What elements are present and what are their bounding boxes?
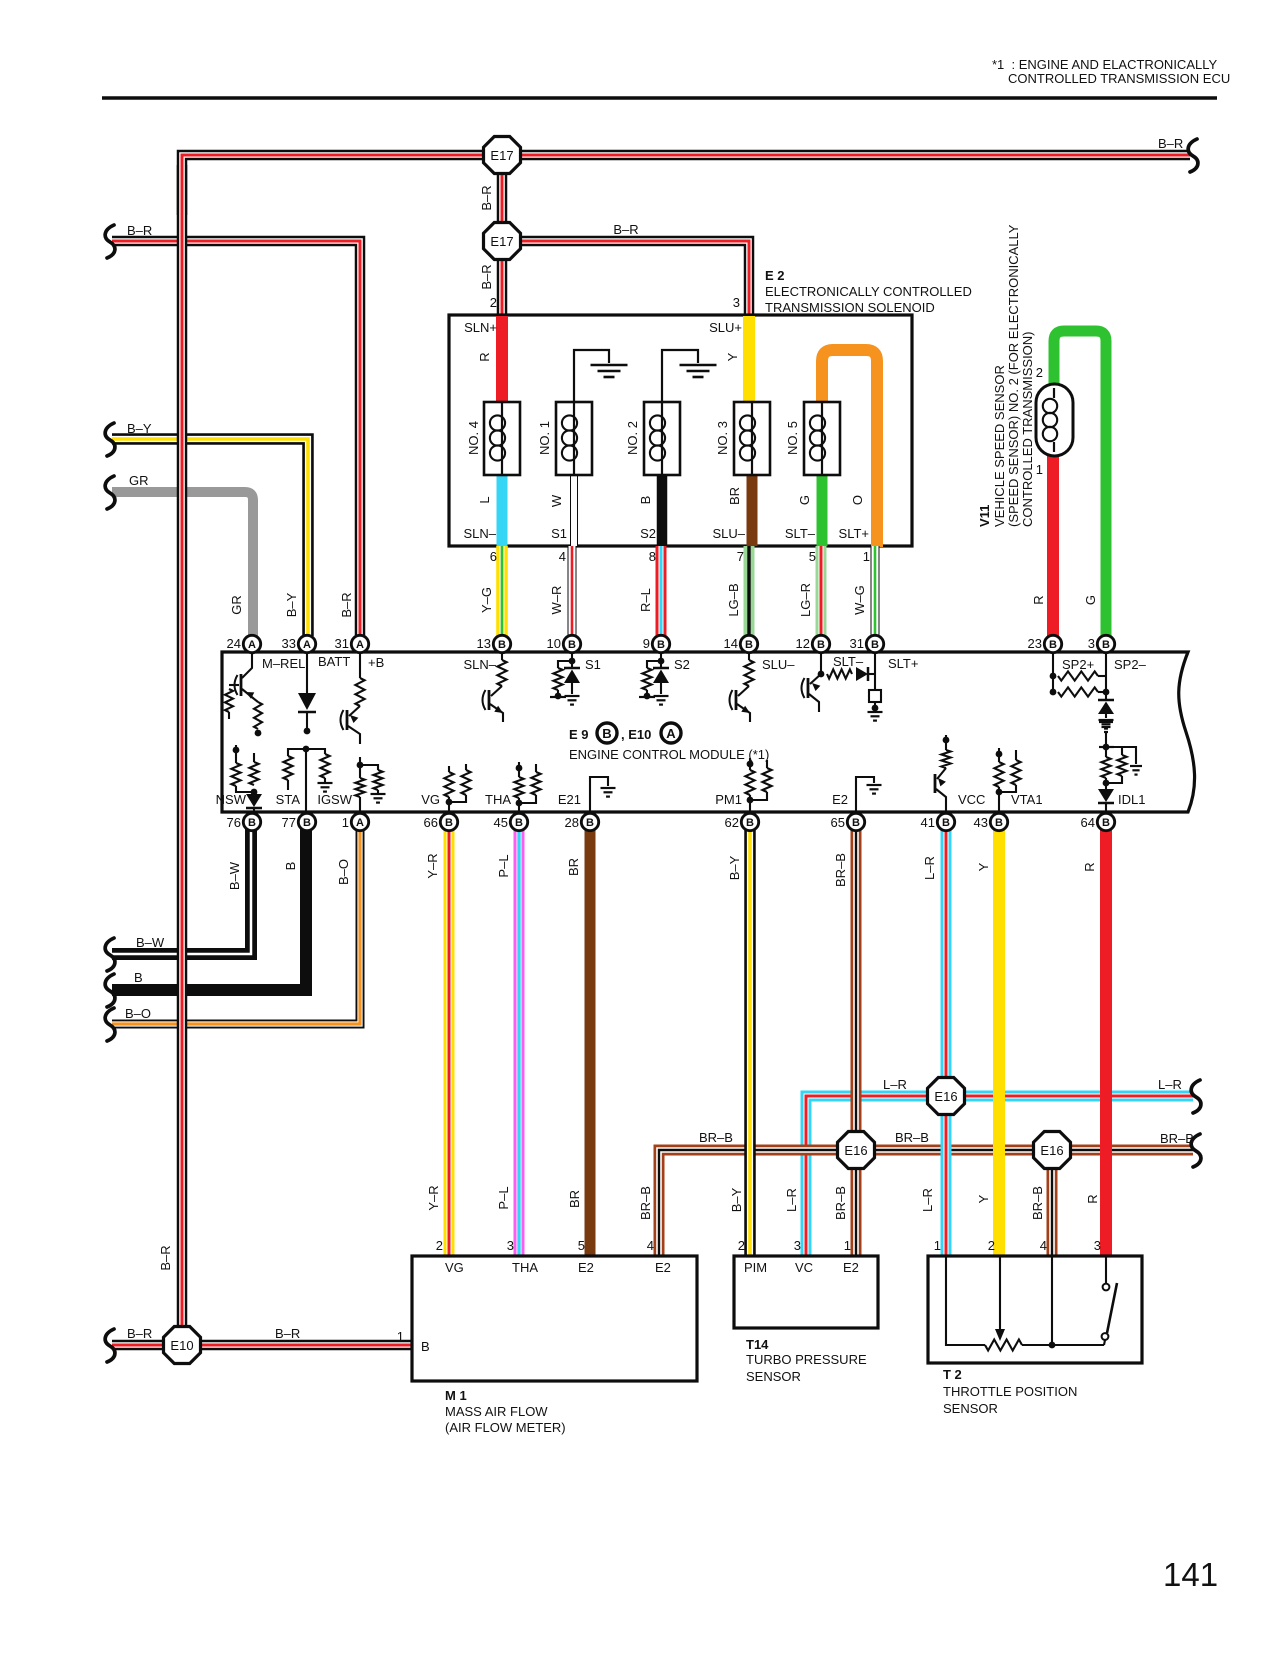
svg-text:L–R: L–R xyxy=(883,1077,907,1092)
svg-text:BR: BR xyxy=(567,1190,582,1208)
svg-text:B: B xyxy=(995,817,1003,829)
svg-text:B–Y: B–Y xyxy=(727,855,742,880)
svg-text:CONTROLLED TRANSMISSION): CONTROLLED TRANSMISSION) xyxy=(1020,331,1035,527)
svg-text:LG–B: LG–B xyxy=(726,583,741,616)
svg-text:GR: GR xyxy=(229,595,244,615)
svg-text:S1: S1 xyxy=(551,526,567,541)
svg-text:B: B xyxy=(568,639,576,651)
svg-text:SLU–: SLU– xyxy=(712,526,745,541)
svg-text:B–R: B–R xyxy=(1158,136,1183,151)
svg-text:IGSW: IGSW xyxy=(317,792,352,807)
svg-text:BR–B: BR–B xyxy=(833,1186,848,1220)
svg-text:A: A xyxy=(356,817,364,829)
svg-text:43: 43 xyxy=(974,815,988,830)
svg-text:E17: E17 xyxy=(490,234,513,249)
svg-text:BR–B: BR–B xyxy=(699,1130,733,1145)
svg-text:IDL1: IDL1 xyxy=(1118,792,1145,807)
svg-text:BR: BR xyxy=(727,487,742,505)
svg-text:B–Y: B–Y xyxy=(284,592,299,617)
svg-text:B: B xyxy=(746,817,754,829)
svg-text:W–R: W–R xyxy=(549,586,564,615)
svg-text:A: A xyxy=(248,639,256,651)
svg-text:ELECTRONICALLY CONTROLLED: ELECTRONICALLY CONTROLLED xyxy=(765,284,972,299)
svg-text:B: B xyxy=(498,639,506,651)
svg-text:1: 1 xyxy=(342,815,349,830)
svg-text:E10: E10 xyxy=(170,1338,193,1353)
svg-text:E16: E16 xyxy=(844,1143,867,1158)
svg-text:E21: E21 xyxy=(558,792,581,807)
svg-text:ENGINE CONTROL MODULE (*1): ENGINE CONTROL MODULE (*1) xyxy=(569,747,769,762)
svg-text:2: 2 xyxy=(436,1238,443,1253)
svg-text:23: 23 xyxy=(1028,636,1042,651)
svg-text:5: 5 xyxy=(578,1238,585,1253)
svg-text:NO. 5: NO. 5 xyxy=(785,421,800,455)
svg-text:R: R xyxy=(1085,1194,1100,1203)
svg-text:R: R xyxy=(477,352,492,361)
svg-text:B–R: B–R xyxy=(127,1326,152,1341)
svg-text:E17: E17 xyxy=(490,148,513,163)
svg-text:4: 4 xyxy=(1040,1238,1047,1253)
svg-text:B: B xyxy=(1102,639,1110,651)
svg-text:VTA1: VTA1 xyxy=(1011,792,1043,807)
svg-text:8: 8 xyxy=(649,549,656,564)
svg-text:2: 2 xyxy=(988,1238,995,1253)
svg-text:B–W: B–W xyxy=(136,935,165,950)
svg-text:Y–G: Y–G xyxy=(479,587,494,613)
svg-text:NO. 1: NO. 1 xyxy=(537,421,552,455)
svg-text:, E10: , E10 xyxy=(621,727,651,742)
svg-text:THROTTLE POSITION: THROTTLE POSITION xyxy=(943,1384,1077,1399)
svg-text:SLN–: SLN– xyxy=(463,657,496,672)
svg-text:SLU+: SLU+ xyxy=(709,320,742,335)
svg-text:A: A xyxy=(303,639,311,651)
svg-text:(AIR FLOW METER): (AIR FLOW METER) xyxy=(445,1420,566,1435)
svg-text:SENSOR: SENSOR xyxy=(746,1369,801,1384)
svg-text:3: 3 xyxy=(1094,1238,1101,1253)
svg-text:SLT–: SLT– xyxy=(833,654,864,669)
svg-text:Y: Y xyxy=(725,352,740,361)
svg-text:A: A xyxy=(356,639,364,651)
svg-text:SLT+: SLT+ xyxy=(888,656,918,671)
svg-text:B–R: B–R xyxy=(275,1326,300,1341)
svg-text:SP2+: SP2+ xyxy=(1062,657,1094,672)
svg-text:B: B xyxy=(871,639,879,651)
svg-text:BR–B: BR–B xyxy=(638,1186,653,1220)
svg-text:B: B xyxy=(1049,639,1057,651)
svg-text:3: 3 xyxy=(794,1238,801,1253)
svg-text:A: A xyxy=(666,726,676,741)
svg-text:2: 2 xyxy=(490,295,497,310)
svg-text:STA: STA xyxy=(276,792,301,807)
svg-text:64: 64 xyxy=(1081,815,1095,830)
svg-text:12: 12 xyxy=(796,636,810,651)
svg-text:L–R: L–R xyxy=(922,856,937,880)
svg-text:W–G: W–G xyxy=(852,585,867,615)
svg-text:B: B xyxy=(303,817,311,829)
svg-text:B–Y: B–Y xyxy=(729,1187,744,1212)
svg-text:41: 41 xyxy=(921,815,935,830)
svg-text:B: B xyxy=(421,1339,430,1354)
svg-text:2: 2 xyxy=(1036,365,1043,380)
svg-text:B–R: B–R xyxy=(479,185,494,210)
svg-text:B: B xyxy=(445,817,453,829)
svg-text:T14: T14 xyxy=(746,1337,769,1352)
svg-text:6: 6 xyxy=(490,549,497,564)
svg-text:VEHICLE SPEED SENSOR: VEHICLE SPEED SENSOR xyxy=(992,365,1007,527)
svg-text:3: 3 xyxy=(733,295,740,310)
svg-text:LG–R: LG–R xyxy=(798,583,813,617)
svg-text:E 9: E 9 xyxy=(569,727,589,742)
svg-text:B–Y: B–Y xyxy=(127,421,152,436)
svg-text:E2: E2 xyxy=(578,1260,594,1275)
svg-text:BR–B: BR–B xyxy=(1160,1131,1194,1146)
svg-text:B–R: B–R xyxy=(339,592,354,617)
svg-text:PM1: PM1 xyxy=(715,792,742,807)
svg-text:GR: GR xyxy=(129,473,149,488)
svg-text:THA: THA xyxy=(485,792,511,807)
svg-text:B: B xyxy=(817,639,825,651)
svg-text:1: 1 xyxy=(1036,462,1043,477)
svg-text:B: B xyxy=(657,639,665,651)
svg-text:B: B xyxy=(283,862,298,871)
svg-text:B: B xyxy=(515,817,523,829)
svg-text:BR–B: BR–B xyxy=(833,853,848,887)
svg-text:SLT+: SLT+ xyxy=(839,526,869,541)
svg-text:NO. 3: NO. 3 xyxy=(715,421,730,455)
svg-text:S2: S2 xyxy=(674,657,690,672)
svg-text:1: 1 xyxy=(934,1238,941,1253)
svg-text:O: O xyxy=(850,495,865,505)
svg-text:1: 1 xyxy=(844,1238,851,1253)
svg-text:E 2: E 2 xyxy=(765,268,785,283)
svg-text:+B: +B xyxy=(368,655,384,670)
svg-text:B–W: B–W xyxy=(227,861,242,890)
svg-text:B: B xyxy=(602,726,611,741)
svg-text:SLU–: SLU– xyxy=(762,657,795,672)
svg-text:Y–R: Y–R xyxy=(425,853,440,878)
svg-text:B–O: B–O xyxy=(336,859,351,885)
svg-text:B–O: B–O xyxy=(125,1006,151,1021)
svg-text:S1: S1 xyxy=(585,657,601,672)
svg-text:B–R: B–R xyxy=(127,223,152,238)
svg-text:31: 31 xyxy=(850,636,864,651)
svg-text:141: 141 xyxy=(1163,1556,1218,1593)
svg-text:4: 4 xyxy=(647,1238,654,1253)
svg-text:THA: THA xyxy=(512,1260,538,1275)
svg-text:B: B xyxy=(852,817,860,829)
svg-text:13: 13 xyxy=(477,636,491,651)
svg-text:9: 9 xyxy=(643,636,650,651)
svg-text:PIM: PIM xyxy=(744,1260,767,1275)
svg-text:V11: V11 xyxy=(977,505,992,527)
svg-text:SENSOR: SENSOR xyxy=(943,1401,998,1416)
svg-text:B: B xyxy=(248,817,256,829)
svg-text:T 2: T 2 xyxy=(943,1367,962,1382)
svg-text:VC: VC xyxy=(795,1260,813,1275)
svg-text:76: 76 xyxy=(227,815,241,830)
svg-text:R: R xyxy=(1031,595,1046,604)
svg-text:P–L: P–L xyxy=(496,1186,511,1209)
svg-text:66: 66 xyxy=(424,815,438,830)
svg-text:SLT–: SLT– xyxy=(785,526,816,541)
svg-text:NSW: NSW xyxy=(216,792,247,807)
svg-text:14: 14 xyxy=(724,636,738,651)
svg-text:L–R: L–R xyxy=(920,1188,935,1212)
svg-text:65: 65 xyxy=(831,815,845,830)
svg-text:R: R xyxy=(1082,862,1097,871)
svg-text:BR–B: BR–B xyxy=(1030,1186,1045,1220)
svg-text:BR: BR xyxy=(566,858,581,876)
svg-text:W: W xyxy=(549,494,564,507)
svg-text:1: 1 xyxy=(397,1329,404,1344)
svg-text:B–R: B–R xyxy=(613,222,638,237)
svg-text:MASS AIR FLOW: MASS AIR FLOW xyxy=(445,1404,548,1419)
svg-text:B: B xyxy=(586,817,594,829)
svg-text:SLN+: SLN+ xyxy=(464,320,497,335)
svg-text:M 1: M 1 xyxy=(445,1388,467,1403)
svg-text:TURBO PRESSURE: TURBO PRESSURE xyxy=(746,1352,867,1367)
svg-text:7: 7 xyxy=(737,549,744,564)
svg-text:E16: E16 xyxy=(934,1089,957,1104)
svg-text:BR–B: BR–B xyxy=(895,1130,929,1145)
svg-text:VG: VG xyxy=(445,1260,464,1275)
svg-text:B: B xyxy=(942,817,950,829)
svg-text:45: 45 xyxy=(494,815,508,830)
svg-text:VCC: VCC xyxy=(958,792,985,807)
svg-text:3: 3 xyxy=(1088,636,1095,651)
svg-text:5: 5 xyxy=(809,549,816,564)
svg-text:CONTROLLED TRANSMISSION ECU: CONTROLLED TRANSMISSION ECU xyxy=(1008,71,1230,86)
svg-text:24: 24 xyxy=(227,636,241,651)
svg-text:E16: E16 xyxy=(1040,1143,1063,1158)
svg-text:VG: VG xyxy=(421,792,440,807)
svg-text:B–R: B–R xyxy=(479,264,494,289)
svg-text:SLN–: SLN– xyxy=(463,526,496,541)
svg-text:L–R: L–R xyxy=(1158,1077,1182,1092)
svg-text:4: 4 xyxy=(559,549,566,564)
svg-text:Y: Y xyxy=(976,862,991,871)
svg-text:28: 28 xyxy=(565,815,579,830)
svg-text:S2: S2 xyxy=(640,526,656,541)
svg-text:B: B xyxy=(745,639,753,651)
svg-text:3: 3 xyxy=(507,1238,514,1253)
svg-text:B–R: B–R xyxy=(158,1245,173,1270)
svg-text:E2: E2 xyxy=(832,792,848,807)
svg-text:R–L: R–L xyxy=(638,588,653,612)
svg-text:77: 77 xyxy=(282,815,296,830)
svg-text:*1 : ENGINE AND ELACTRONICALL: *1 : ENGINE AND ELACTRONICALLY xyxy=(992,57,1217,72)
svg-text:L–R: L–R xyxy=(784,1188,799,1212)
svg-text:G: G xyxy=(797,495,812,505)
svg-text:1: 1 xyxy=(863,549,870,564)
svg-text:L: L xyxy=(477,496,492,503)
svg-text:G: G xyxy=(1083,595,1098,605)
svg-text:(SPEED SENSOR) NO. 2 (FOR ELEC: (SPEED SENSOR) NO. 2 (FOR ELECTRONICALLY xyxy=(1006,224,1021,527)
svg-text:Y: Y xyxy=(976,1194,991,1203)
svg-text:B: B xyxy=(1102,817,1110,829)
svg-text:31: 31 xyxy=(335,636,349,651)
svg-text:B: B xyxy=(638,496,653,505)
svg-text:33: 33 xyxy=(282,636,296,651)
svg-text:E2: E2 xyxy=(843,1260,859,1275)
svg-text:TRANSMISSION SOLENOID: TRANSMISSION SOLENOID xyxy=(765,300,935,315)
svg-text:SP2–: SP2– xyxy=(1114,657,1147,672)
svg-text:E2: E2 xyxy=(655,1260,671,1275)
svg-text:62: 62 xyxy=(725,815,739,830)
svg-text:P–L: P–L xyxy=(496,854,511,877)
svg-text:Y–R: Y–R xyxy=(426,1185,441,1210)
svg-text:NO. 4: NO. 4 xyxy=(466,421,481,455)
svg-text:2: 2 xyxy=(738,1238,745,1253)
svg-text:B: B xyxy=(134,970,143,985)
svg-text:10: 10 xyxy=(547,636,561,651)
svg-text:M–REL: M–REL xyxy=(262,656,305,671)
svg-text:BATT: BATT xyxy=(318,654,350,669)
svg-text:NO. 2: NO. 2 xyxy=(625,421,640,455)
